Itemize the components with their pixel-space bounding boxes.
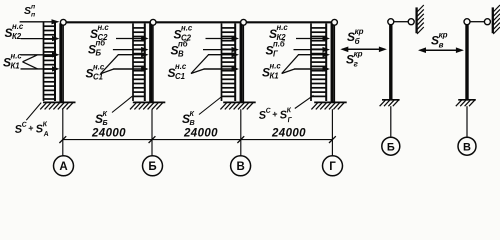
double-headed arrow S_v^kr bbox=[418, 47, 464, 53]
fixed base (ground) of column G bbox=[311, 102, 346, 109]
load strip left rail, column A bbox=[43, 22, 45, 101]
svg-text:В: В bbox=[190, 118, 195, 127]
force arrow (upper, S_C2/S_K2) into column G bbox=[296, 36, 330, 41]
hinge circle top of column B-right bbox=[388, 19, 394, 25]
extension line below column V bbox=[240, 109, 242, 156]
fork leader for lower label, column G bbox=[282, 55, 299, 74]
load strip right rail, column G bbox=[325, 24, 327, 102]
fixed base (ground) of column V bbox=[220, 102, 255, 109]
svg-text:кр: кр bbox=[355, 27, 364, 36]
leader for S^c+S_G^k bbox=[295, 95, 314, 108]
axis circle В (right) bbox=[458, 137, 476, 155]
label S_C2^n.s span B-V bbox=[174, 24, 193, 43]
load strip right rail, column A bbox=[54, 22, 56, 101]
column B hinge stem bbox=[152, 25, 154, 103]
column G (thick line) bbox=[331, 23, 334, 102]
fork leader for lower label, column B bbox=[101, 55, 119, 74]
girder beam segment A-B bbox=[66, 21, 150, 23]
dimension line bbox=[63, 139, 333, 141]
svg-text:н.с: н.с bbox=[98, 23, 110, 32]
force arrow S_K2 into column A bbox=[21, 36, 60, 41]
isolated column B-right (braced) bbox=[389, 24, 392, 100]
label S_C2^n.s span A-B bbox=[90, 23, 109, 42]
load strip right rail, column V bbox=[234, 24, 236, 102]
girder beam segment V-G bbox=[246, 21, 331, 23]
load strip rungs, column A bbox=[44, 26, 56, 99]
label S_v^kr bbox=[431, 30, 448, 49]
hinge circle at top of column B bbox=[150, 19, 156, 25]
svg-text:пб: пб bbox=[178, 40, 188, 49]
brace strut from column V-right to wall bbox=[470, 21, 484, 23]
force arrow (upper, S_C2/S_K2) into column B bbox=[116, 36, 149, 41]
girder beam segment B-V bbox=[156, 21, 241, 23]
label S_C1^n.s span A-B bbox=[86, 63, 105, 82]
svg-text:н.с: н.с bbox=[11, 52, 23, 61]
load strip rungs, column G bbox=[311, 28, 326, 97]
load strip left rail, column V bbox=[221, 24, 223, 102]
svg-text:в: в bbox=[439, 41, 444, 50]
label S_K1^n.s bbox=[3, 52, 22, 71]
extension line below column G bbox=[331, 109, 333, 156]
force arrow (crane girder S^pb) into column V bbox=[203, 47, 239, 52]
svg-text:н.с: н.с bbox=[12, 22, 24, 31]
leader for S_B^k bbox=[112, 96, 132, 112]
svg-text:К: К bbox=[190, 109, 195, 118]
leader for S^c+S_A^k bbox=[26, 103, 41, 121]
axis drop line, column B-right bbox=[390, 106, 392, 137]
extension line below column B bbox=[151, 109, 153, 156]
label S^c + S_A^k bbox=[14, 120, 49, 141]
fixed base of isolated column V-right bbox=[456, 100, 476, 106]
svg-text:24000: 24000 bbox=[271, 128, 306, 140]
double-headed arrow S_b^kr / S_g^kr bbox=[340, 47, 387, 53]
svg-text:К2: К2 bbox=[12, 32, 22, 41]
label S^c + S_G^k bbox=[258, 106, 293, 127]
column A (thick line) bbox=[59, 23, 62, 102]
svg-text:А: А bbox=[42, 131, 49, 139]
load strip left rail, column G bbox=[310, 24, 312, 102]
hinge circle at top of column A bbox=[60, 19, 66, 25]
svg-text:В: В bbox=[236, 161, 244, 173]
wall anchor bar, column B-right bbox=[417, 5, 424, 34]
column G hinge stem bbox=[334, 25, 336, 103]
dimension tick bbox=[59, 136, 66, 143]
force arrow (crane girder S^pb) into column B bbox=[113, 47, 149, 52]
hinge circle at top of column G bbox=[332, 19, 338, 25]
force arrow (upper, S_C2/S_K2) into column V bbox=[206, 36, 240, 41]
svg-text:А: А bbox=[59, 161, 67, 173]
svg-text:С1: С1 bbox=[93, 72, 103, 81]
brace strut from column B-right to wall bbox=[394, 21, 408, 23]
hinge circle at wall end, column B-right bbox=[408, 19, 414, 25]
load strip left rail, column B bbox=[132, 24, 134, 102]
fork leader for S_K1 label bbox=[23, 55, 38, 69]
svg-text:S: S bbox=[24, 5, 31, 17]
hinge circle at top of column V bbox=[241, 19, 247, 25]
label S_B^pb bbox=[88, 39, 105, 58]
column A hinge stem bbox=[62, 25, 64, 103]
svg-text:Б: Б bbox=[387, 141, 395, 153]
axis drop line, column V-right bbox=[466, 106, 468, 137]
force arrow pair (S_C1/S_K1) into column B bbox=[113, 52, 148, 72]
svg-text:н.с: н.с bbox=[277, 23, 289, 32]
svg-text:Б: Б bbox=[96, 48, 102, 57]
label S_B^k bbox=[95, 109, 108, 127]
svg-text:К: К bbox=[103, 109, 108, 118]
label S_G^p.b bbox=[266, 40, 285, 59]
svg-text:н.с: н.с bbox=[181, 24, 193, 33]
svg-text:К1: К1 bbox=[270, 71, 279, 80]
axis circle В bbox=[231, 156, 251, 176]
svg-text:Б: Б bbox=[148, 161, 156, 173]
load strip rungs, column B bbox=[133, 28, 145, 97]
isolated column V-right (braced) bbox=[465, 24, 468, 100]
label S_V^pb bbox=[171, 40, 188, 59]
label S_b^kr bbox=[347, 27, 364, 46]
dimension tick bbox=[237, 136, 244, 143]
extension line below column A bbox=[62, 109, 64, 156]
label S_V^k bbox=[182, 109, 195, 127]
hinge circle at wall end, column V-right bbox=[484, 19, 490, 25]
load strip right rail, column B bbox=[144, 24, 146, 102]
svg-text:Б: Б bbox=[103, 118, 108, 127]
svg-text:н.с: н.с bbox=[93, 63, 105, 72]
force arrow S_p^p at roof level into column A bbox=[20, 19, 60, 24]
fork leader for lower label, column V bbox=[191, 55, 208, 74]
svg-text:н.с: н.с bbox=[175, 62, 187, 71]
svg-text:г: г bbox=[354, 60, 359, 69]
axis circle Г bbox=[323, 156, 343, 176]
axis circle Б bbox=[143, 156, 163, 176]
svg-text:В: В bbox=[178, 49, 184, 58]
leader for S_V^k bbox=[199, 97, 222, 115]
svg-text:24000: 24000 bbox=[91, 128, 126, 140]
svg-text:В: В bbox=[463, 141, 471, 153]
label S_g^kr bbox=[346, 49, 363, 68]
force arrow pair (S_C1/S_K1) into column V bbox=[204, 52, 239, 72]
hinge circle top of column V-right bbox=[464, 19, 470, 25]
axis circle А bbox=[54, 156, 74, 176]
force arrow pair S_K1 into column A bbox=[21, 52, 60, 72]
wall anchor bar, column V-right bbox=[493, 5, 500, 34]
dimension tick bbox=[149, 136, 156, 143]
label S_K2^n.s span V-G bbox=[269, 23, 288, 42]
fixed base (ground) of column A bbox=[40, 102, 75, 109]
svg-text:н.с: н.с bbox=[270, 62, 282, 71]
dimension tick bbox=[329, 136, 336, 143]
fixed base (ground) of column B bbox=[130, 102, 165, 109]
force arrow pair (S_C1/S_K1) into column G bbox=[294, 52, 330, 72]
label S_K1^n.s span V-G bbox=[262, 62, 281, 81]
svg-text:24000: 24000 bbox=[183, 128, 218, 140]
label S_C1^n.s span B-V bbox=[168, 62, 187, 81]
svg-text:С1: С1 bbox=[175, 72, 185, 81]
axis circle Б (right) bbox=[382, 137, 400, 155]
label S_K2^n.s bbox=[5, 22, 24, 41]
svg-text:К1: К1 bbox=[11, 61, 20, 70]
column V hinge stem bbox=[243, 25, 245, 103]
label S_p^p bbox=[24, 4, 36, 19]
fixed base of isolated column B-right bbox=[380, 100, 400, 106]
svg-text:кр: кр bbox=[439, 30, 448, 39]
load strip rungs, column V bbox=[222, 28, 236, 97]
svg-text:кр: кр bbox=[354, 49, 363, 58]
column B (thick line) bbox=[149, 23, 152, 102]
column V (thick line) bbox=[240, 23, 243, 102]
force arrow (crane girder S^pb) into column G bbox=[294, 47, 331, 52]
svg-text:Г: Г bbox=[329, 161, 336, 173]
svg-text:п.б: п.б bbox=[273, 40, 285, 49]
svg-text:пб: пб bbox=[96, 39, 106, 48]
